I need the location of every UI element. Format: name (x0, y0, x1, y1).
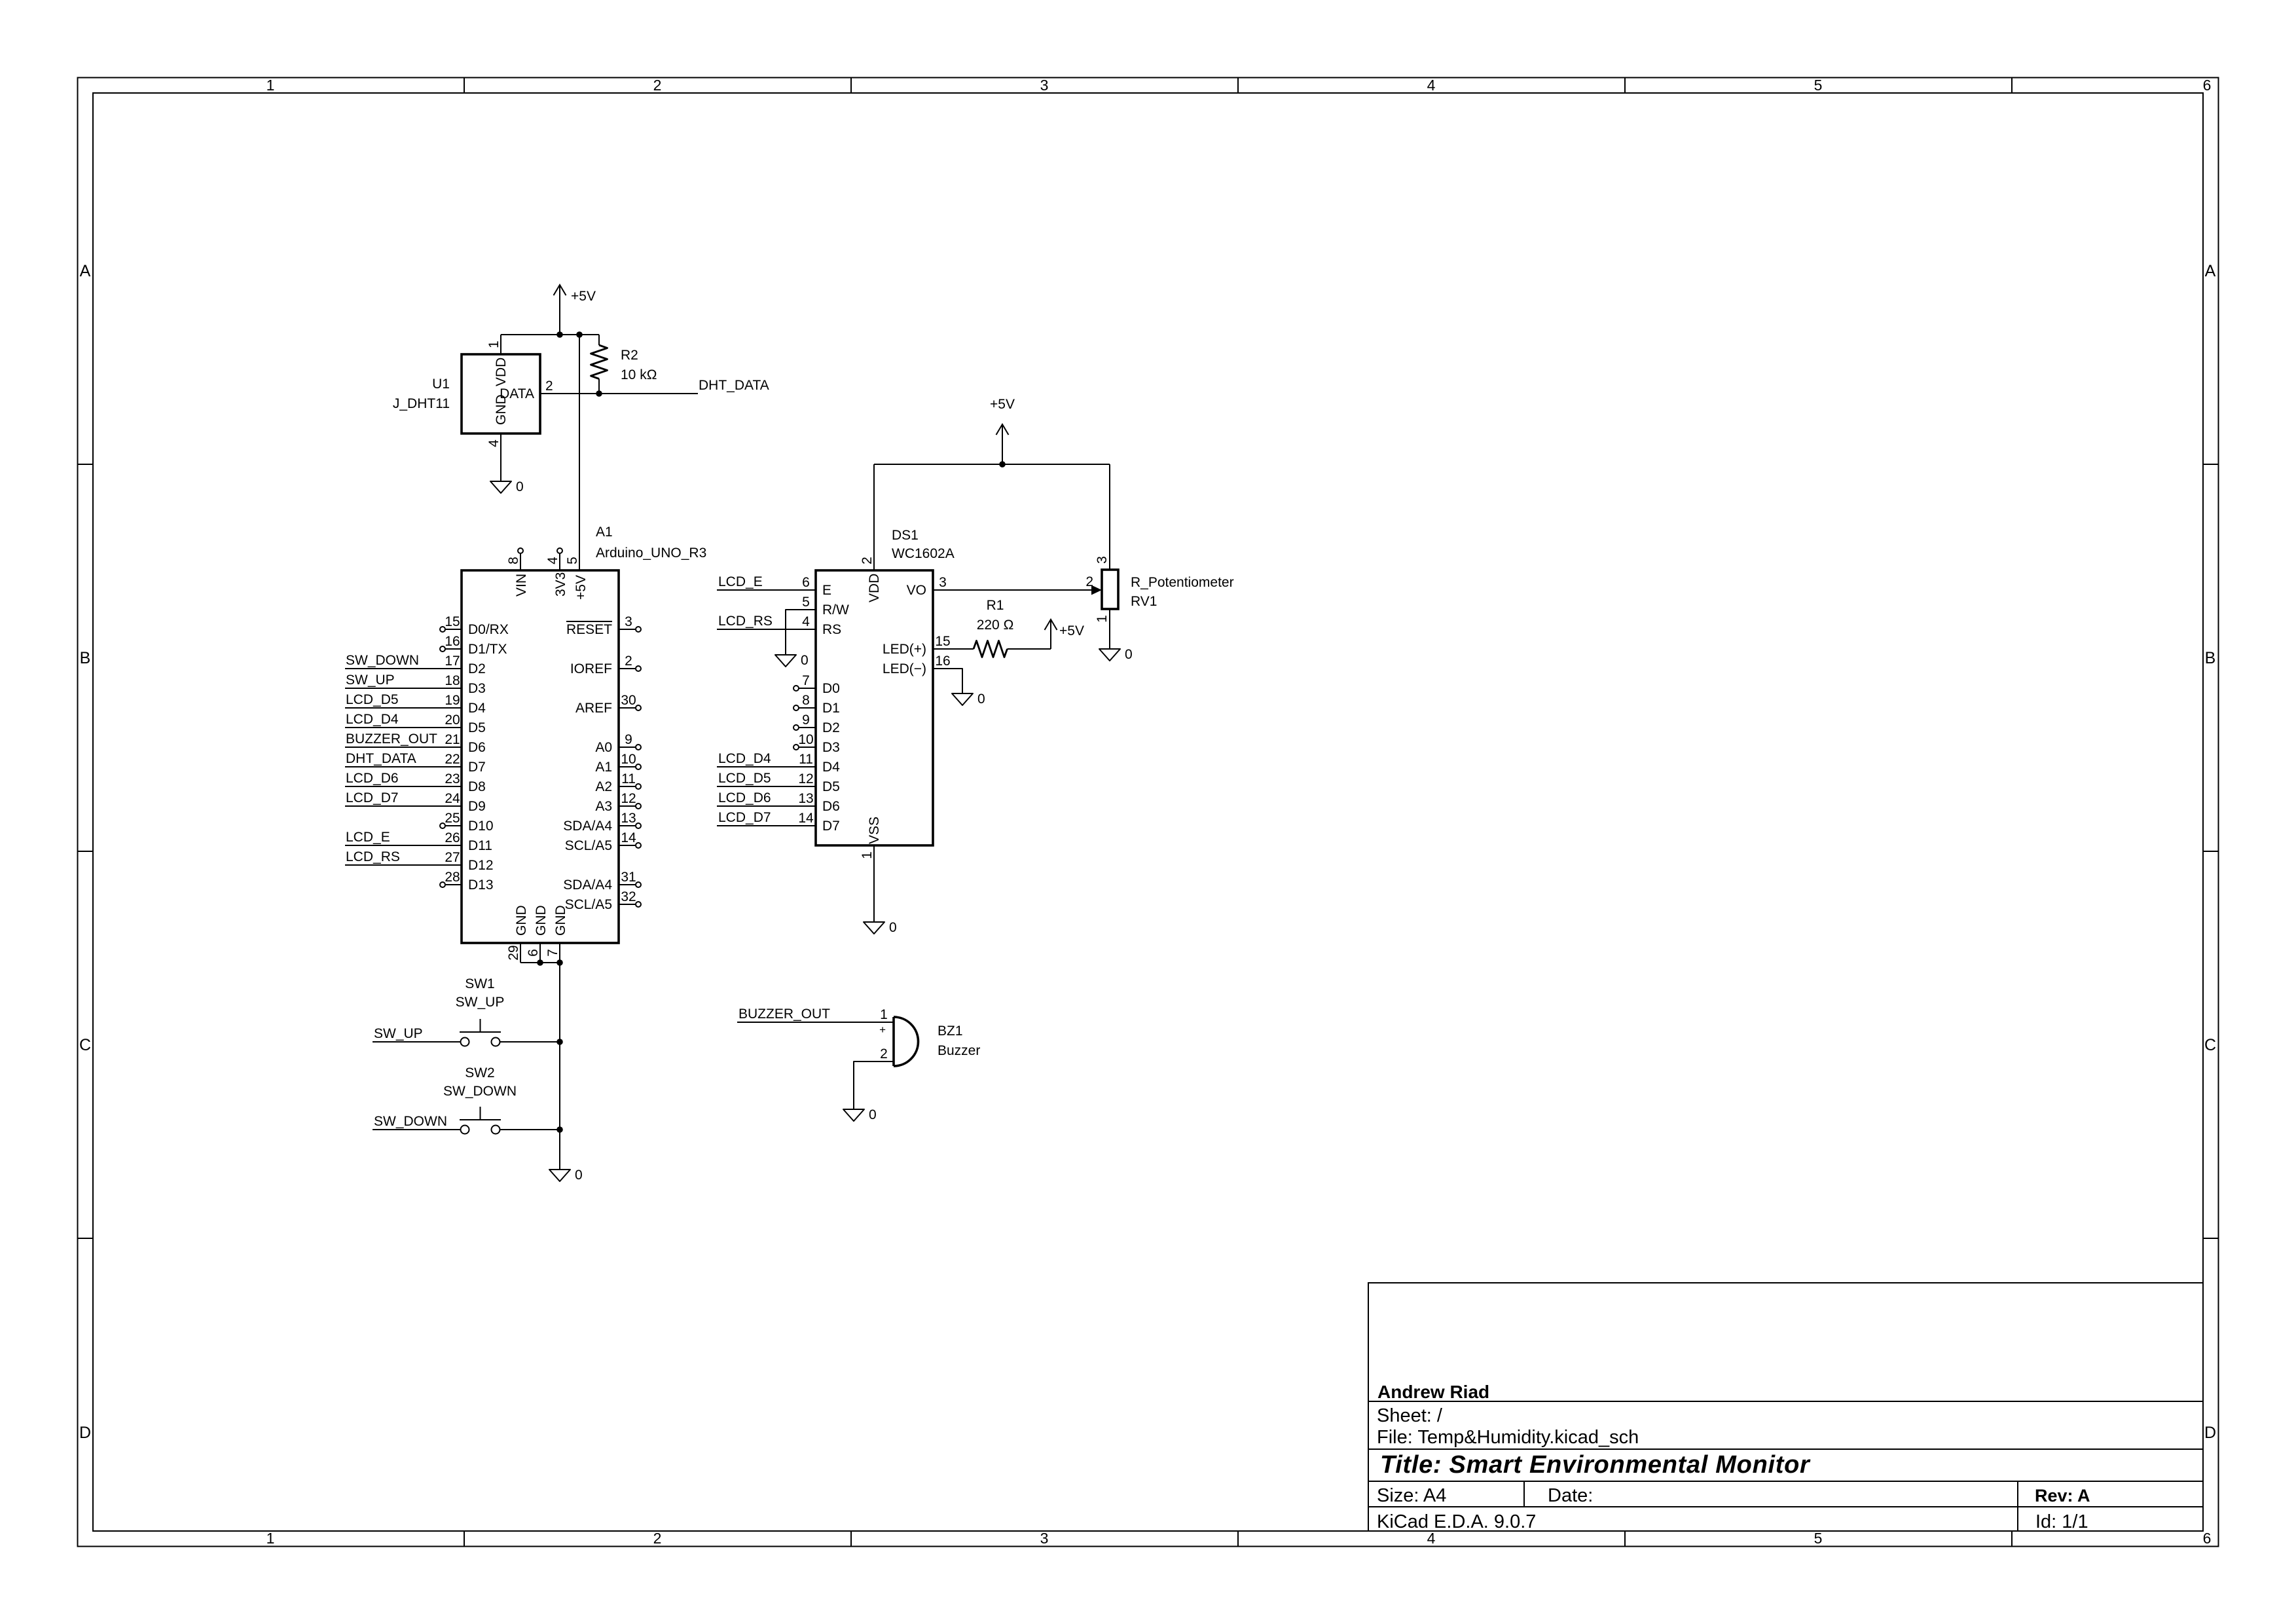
svg-text:0: 0 (1125, 647, 1133, 662)
resistor R1 (953, 648, 974, 650)
svg-text:D9: D9 (468, 799, 486, 814)
svg-text:D3: D3 (822, 740, 840, 755)
wire BUZZER_OUT to BZ1 (737, 1022, 874, 1023)
wire LCD_D7 to A1 D9 (345, 805, 462, 807)
svg-text:GND: GND (514, 905, 529, 936)
wire BZ1 pin2 to ground (854, 1061, 874, 1109)
svg-text:C: C (2204, 1036, 2216, 1054)
svg-text:26: 26 (445, 830, 460, 845)
ground symbol below VSS (864, 922, 884, 934)
wire LCD_RS to DS1 RS (717, 629, 816, 630)
svg-text:D: D (2204, 1424, 2216, 1442)
svg-text:25: 25 (445, 811, 460, 826)
wire from rail down to Arduino +5V pin (579, 335, 580, 570)
svg-text:29: 29 (506, 945, 521, 960)
svg-text:D7: D7 (468, 760, 486, 775)
svg-text:2: 2 (1085, 574, 1093, 589)
svg-text:28: 28 (445, 870, 460, 885)
junction at Arduino 5V drop (576, 331, 583, 338)
wire LCD_D5 to A1 D4 (345, 707, 462, 709)
svg-text:3: 3 (1040, 77, 1049, 94)
svg-text:D8: D8 (468, 779, 486, 794)
wire SW1 to gnd trunk (500, 1041, 560, 1043)
svg-text:16: 16 (445, 634, 460, 649)
potentiometer RV1 body (1102, 570, 1118, 609)
svg-text:LCD_D6: LCD_D6 (718, 790, 771, 805)
svg-text:B: B (2205, 649, 2216, 667)
svg-text:21: 21 (445, 732, 460, 747)
svg-text:4: 4 (802, 614, 810, 629)
wire BUZZER_OUT to A1 D6 (345, 747, 462, 748)
svg-text:0: 0 (575, 1168, 583, 1183)
svg-text:D12: D12 (468, 858, 494, 873)
wire SW2 to gnd trunk (500, 1129, 560, 1130)
RV1 wiper arrow (1091, 585, 1102, 595)
svg-text:D10: D10 (468, 819, 494, 834)
svg-text:23: 23 (445, 771, 460, 786)
svg-text:LCD_D6: LCD_D6 (346, 771, 399, 786)
svg-text:Rev: A: Rev: A (2035, 1486, 2090, 1505)
svg-text:7: 7 (802, 673, 810, 688)
svg-text:D: D (79, 1424, 91, 1442)
BZ1 pin 2 (874, 1061, 894, 1062)
junction LCD rail / +5V (999, 461, 1006, 468)
svg-text:VSS: VSS (867, 817, 882, 844)
wire LED(-) to ground (953, 669, 962, 693)
svg-text:19: 19 (445, 693, 460, 708)
svg-text:Sheet: /: Sheet: / (1377, 1405, 1443, 1426)
svg-text:VIN: VIN (514, 574, 529, 597)
svg-text:SW_DOWN: SW_DOWN (374, 1114, 447, 1129)
A1 pin 30 AREF (619, 707, 636, 709)
junction at +5V symbol (556, 331, 563, 338)
svg-text:4: 4 (486, 439, 501, 447)
svg-text:SCL/A5: SCL/A5 (565, 897, 612, 912)
svg-text:32: 32 (621, 889, 636, 904)
component DS1 WC1602A body (816, 570, 933, 845)
svg-text:11: 11 (799, 752, 813, 767)
svg-text:15: 15 (445, 614, 460, 629)
A1 pin 14 SCL/A5 (619, 845, 636, 846)
junction R2 to DATA wire (596, 390, 602, 397)
svg-text:KiCad E.D.A. 9.0.7: KiCad E.D.A. 9.0.7 (1377, 1511, 1536, 1532)
svg-text:SW_DOWN: SW_DOWN (346, 653, 419, 668)
svg-text:+5V: +5V (574, 575, 589, 600)
svg-text:+5V: +5V (990, 397, 1015, 412)
svg-text:3: 3 (939, 575, 947, 590)
svg-text:3: 3 (1095, 556, 1110, 564)
svg-text:30: 30 (621, 693, 636, 708)
ground symbol below RV1 (1099, 649, 1120, 661)
svg-text:10: 10 (621, 752, 636, 767)
svg-text:D4: D4 (468, 701, 486, 716)
A1 pin 29 GND (520, 943, 521, 963)
svg-text:14: 14 (798, 811, 814, 826)
svg-text:SDA/A4: SDA/A4 (563, 819, 612, 834)
A1 pin 11 A2 (619, 786, 636, 787)
svg-text:LCD_E: LCD_E (718, 574, 763, 589)
wire +5V rail above U1 (501, 334, 599, 335)
svg-text:BUZZER_OUT: BUZZER_OUT (738, 1006, 830, 1022)
zone row ticks right (2203, 464, 2219, 465)
svg-text:6: 6 (2203, 1530, 2212, 1547)
U1 pin 4 GND (500, 434, 501, 453)
svg-text:6: 6 (802, 575, 810, 590)
svg-text:A2: A2 (595, 779, 612, 794)
A1 pin 10 A1 (619, 766, 636, 767)
svg-text:A1: A1 (595, 760, 612, 775)
svg-text:D4: D4 (822, 760, 840, 775)
wire VO to RV1 wiper (953, 589, 1093, 591)
svg-text:9: 9 (625, 732, 632, 747)
ground symbol below switches (549, 1170, 570, 1181)
svg-text:15: 15 (935, 634, 950, 649)
svg-text:C: C (79, 1036, 91, 1054)
svg-text:Arduino_UNO_R3: Arduino_UNO_R3 (596, 545, 706, 561)
svg-text:5: 5 (802, 595, 810, 610)
svg-text:D13: D13 (468, 877, 494, 893)
svg-text:RESET: RESET (566, 622, 612, 637)
svg-text:1: 1 (860, 851, 875, 859)
ground symbol below LED(-) (952, 693, 973, 705)
svg-text:D1/TX: D1/TX (468, 642, 507, 657)
svg-text:13: 13 (798, 791, 813, 806)
svg-text:GND: GND (534, 905, 549, 936)
svg-text:6: 6 (526, 949, 541, 957)
svg-text:R_Potentiometer: R_Potentiometer (1131, 575, 1234, 590)
svg-text:0: 0 (516, 479, 524, 494)
wire LCD_D6 to A1 D8 (345, 786, 462, 787)
svg-text:LCD_D7: LCD_D7 (346, 790, 399, 805)
DS1 pin 2 VDD (873, 464, 875, 570)
junction SW2/trunk (556, 1126, 563, 1133)
svg-text:LCD_E: LCD_E (346, 830, 390, 845)
A1 pin 4 3V3 (559, 553, 560, 570)
svg-text:2: 2 (860, 557, 875, 564)
svg-text:IOREF: IOREF (570, 661, 612, 676)
svg-text:Id: 1/1: Id: 1/1 (2035, 1511, 2088, 1532)
wire LCD_D4 to A1 D5 (345, 727, 462, 728)
DS1 pin 15 LED(+) (933, 648, 953, 650)
svg-text:SW_UP: SW_UP (374, 1026, 423, 1041)
svg-text:LCD_D7: LCD_D7 (718, 810, 771, 825)
wire LCD_E to DS1 E (717, 589, 816, 591)
A1 pin 13 SDA/A4 (619, 825, 636, 826)
svg-text:A3: A3 (595, 799, 612, 814)
svg-text:LCD_RS: LCD_RS (718, 614, 773, 629)
svg-text:LED(−): LED(−) (883, 661, 926, 676)
svg-text:B: B (80, 649, 91, 667)
ground symbol below BZ1 (843, 1109, 864, 1121)
svg-text:3: 3 (625, 614, 632, 629)
svg-text:LCD_D5: LCD_D5 (718, 771, 771, 786)
svg-text:11: 11 (621, 771, 636, 786)
svg-text:Andrew Riad: Andrew Riad (1377, 1382, 1489, 1402)
A1 pin 7 GND (559, 943, 560, 963)
zone column ticks bottom (464, 1531, 465, 1547)
svg-text:24: 24 (445, 791, 460, 806)
svg-text:22: 22 (445, 752, 460, 767)
resistor R2 (598, 335, 600, 345)
wire SW_UP label to SW1 (373, 1041, 460, 1043)
DS1 pin 3 VO (933, 589, 953, 591)
power symbol +5V (R1) (1050, 619, 1051, 649)
svg-text:16: 16 (935, 654, 950, 669)
wire DHT_DATA to A1 D7 (345, 766, 462, 767)
svg-text:10 kΩ: 10 kΩ (621, 367, 657, 382)
svg-text:0: 0 (977, 692, 985, 707)
svg-text:SW_UP: SW_UP (456, 995, 505, 1010)
svg-text:D6: D6 (468, 740, 486, 755)
svg-text:2: 2 (653, 77, 662, 94)
svg-text:27: 27 (445, 850, 460, 865)
A1 pin 9 A0 (619, 747, 636, 748)
svg-text:AREF: AREF (575, 701, 612, 716)
A1 pin 8 VIN (520, 553, 521, 570)
svg-text:LCD_D4: LCD_D4 (346, 712, 399, 727)
svg-text:File: Temp&Humidity.kicad_sch: File: Temp&Humidity.kicad_sch (1377, 1427, 1639, 1448)
svg-text:R2: R2 (621, 348, 638, 363)
svg-text:RV1: RV1 (1131, 594, 1157, 609)
svg-text:1: 1 (266, 77, 275, 94)
svg-text:+5V: +5V (1059, 623, 1084, 638)
svg-text:D2: D2 (822, 720, 840, 735)
svg-text:J_DHT11: J_DHT11 (393, 396, 450, 411)
svg-text:12: 12 (621, 791, 636, 806)
svg-text:D11: D11 (468, 838, 492, 853)
svg-text:BUZZER_OUT: BUZZER_OUT (346, 731, 437, 747)
svg-text:A: A (2205, 262, 2216, 280)
svg-text:SCL/A5: SCL/A5 (565, 838, 612, 853)
svg-text:DS1: DS1 (892, 528, 919, 543)
power symbol +5V (LCD rail) (1002, 424, 1003, 464)
A1 pin 12 A3 (619, 805, 636, 807)
svg-text:VDD: VDD (494, 358, 509, 386)
svg-text:5: 5 (565, 557, 580, 564)
svg-text:220 Ω: 220 Ω (977, 618, 1014, 633)
wire LCD_E to A1 D11 (345, 845, 462, 846)
svg-text:4: 4 (1427, 77, 1436, 94)
svg-text:1: 1 (1095, 615, 1110, 623)
svg-text:1: 1 (266, 1530, 275, 1547)
wire LCD VDD rail (874, 464, 1110, 465)
svg-text:D5: D5 (822, 779, 840, 794)
svg-text:Buzzer: Buzzer (938, 1043, 980, 1058)
svg-text:10: 10 (798, 732, 813, 747)
svg-text:20: 20 (445, 712, 460, 728)
DS1 pin 16 LED(-) (933, 668, 953, 669)
BZ1 pin 1 (874, 1022, 894, 1023)
svg-text:8: 8 (506, 557, 521, 564)
svg-text:U1: U1 (432, 377, 450, 392)
component A1 Arduino_UNO_R3 body (462, 570, 619, 943)
svg-text:4: 4 (545, 557, 560, 564)
wire joining A1 GND pins (520, 962, 560, 963)
svg-text:GND: GND (494, 394, 509, 425)
svg-text:R/W: R/W (822, 602, 849, 618)
svg-text:D0/RX: D0/RX (468, 622, 509, 637)
svg-text:7: 7 (545, 949, 560, 957)
svg-text:DHT_DATA: DHT_DATA (699, 378, 769, 393)
svg-text:9: 9 (802, 712, 810, 728)
svg-text:D7: D7 (822, 819, 840, 834)
svg-text:D5: D5 (468, 720, 486, 735)
A1 pin 3 RESET (619, 629, 636, 630)
svg-text:D2: D2 (468, 661, 486, 676)
svg-text:A: A (80, 262, 91, 280)
svg-text:SW_UP: SW_UP (346, 673, 395, 688)
wire SW_DOWN to A1 D2 (345, 668, 462, 669)
title block frame (1368, 1283, 2203, 1531)
svg-text:SW1: SW1 (465, 976, 495, 991)
svg-text:Date:: Date: (1548, 1485, 1593, 1506)
svg-text:0: 0 (801, 653, 809, 668)
component U1 J_DHT11 body (462, 354, 540, 434)
svg-text:E: E (822, 583, 831, 598)
svg-text:LCD_RS: LCD_RS (346, 849, 400, 864)
svg-text:1: 1 (486, 341, 501, 348)
svg-text:1: 1 (880, 1007, 888, 1022)
svg-text:Size: A4: Size: A4 (1377, 1485, 1446, 1506)
A1 pin 2 IOREF (619, 668, 636, 669)
svg-text:2: 2 (653, 1530, 662, 1547)
svg-text:LCD_D4: LCD_D4 (718, 751, 771, 766)
svg-text:5: 5 (1814, 77, 1823, 94)
svg-text:18: 18 (445, 673, 460, 688)
svg-text:D6: D6 (822, 799, 840, 814)
svg-text:12: 12 (798, 771, 813, 786)
svg-text:31: 31 (621, 870, 636, 885)
junction SW1/trunk (556, 1039, 563, 1045)
wire SW_UP to A1 D3 (345, 688, 462, 689)
wire RV1 pin1 to ground (1109, 609, 1110, 649)
svg-text:5: 5 (1814, 1530, 1823, 1547)
zone column ticks top (464, 78, 465, 94)
ground symbol below R/W (775, 655, 796, 667)
A1 pin 31 SDA/A4 (619, 884, 636, 885)
svg-text:LCD_D5: LCD_D5 (346, 692, 399, 707)
svg-text:LED(+): LED(+) (883, 642, 926, 657)
svg-text:SW2: SW2 (465, 1065, 495, 1080)
A1 pin 6 GND (539, 943, 541, 963)
A1 pin 32 SCL/A5 (619, 904, 636, 905)
U1 pin 2 DATA (540, 393, 560, 394)
svg-text:D0: D0 (822, 681, 840, 696)
svg-text:0: 0 (869, 1107, 877, 1122)
svg-text:SW_DOWN: SW_DOWN (443, 1084, 517, 1099)
ground symbol below U1 (500, 453, 501, 481)
svg-text:BZ1: BZ1 (938, 1024, 963, 1039)
zone row ticks left (78, 464, 94, 465)
svg-text:A1: A1 (596, 525, 613, 540)
svg-text:SDA/A4: SDA/A4 (563, 877, 612, 893)
svg-text:2: 2 (625, 654, 632, 669)
svg-text:A0: A0 (595, 740, 612, 755)
svg-text:3V3: 3V3 (553, 572, 568, 597)
U1 pin 1 VDD (500, 335, 501, 354)
svg-text:VO: VO (907, 583, 926, 598)
svg-text:2: 2 (545, 378, 553, 394)
wire rail to RV1 pin3 (1109, 464, 1110, 570)
svg-text:2: 2 (880, 1046, 888, 1061)
DS1 pin 1 VSS (873, 845, 875, 922)
svg-text:+: + (879, 1024, 886, 1036)
wire DHT DATA net (560, 393, 698, 394)
wire SW_DOWN label to SW2 (373, 1129, 460, 1130)
wire GND trunk down to ground (559, 963, 560, 1170)
wire DS1 R/W to ground (786, 610, 796, 655)
wire LCD_D6 to DS1 D6 (717, 805, 816, 807)
buzzer BZ1 body (892, 1017, 895, 1066)
svg-text:DHT_DATA: DHT_DATA (346, 751, 416, 766)
svg-text:D1: D1 (822, 701, 840, 716)
wire LCD_D5 to DS1 D5 (717, 786, 816, 787)
svg-text:VDD: VDD (867, 574, 882, 602)
svg-text:R1: R1 (987, 598, 1004, 613)
power symbol +5V (DHT rail) (559, 285, 560, 335)
svg-text:Title: Smart Environmental Mon: Title: Smart Environmental Monitor (1380, 1451, 1811, 1479)
svg-text:8: 8 (802, 693, 810, 708)
svg-text:3: 3 (1040, 1530, 1049, 1547)
wire LCD_D4 to DS1 D4 (717, 766, 816, 767)
svg-text:6: 6 (2203, 77, 2212, 94)
wire LCD_RS to A1 D12 (345, 864, 462, 866)
svg-text:GND: GND (553, 905, 568, 936)
svg-text:13: 13 (621, 811, 636, 826)
svg-text:14: 14 (621, 830, 636, 845)
wire LCD_D7 to DS1 D7 (717, 825, 816, 826)
svg-text:0: 0 (889, 920, 897, 935)
svg-text:WC1602A: WC1602A (892, 546, 955, 561)
svg-text:17: 17 (445, 654, 460, 669)
svg-text:RS: RS (822, 622, 841, 637)
svg-text:+5V: +5V (571, 289, 596, 304)
svg-text:D3: D3 (468, 681, 486, 696)
